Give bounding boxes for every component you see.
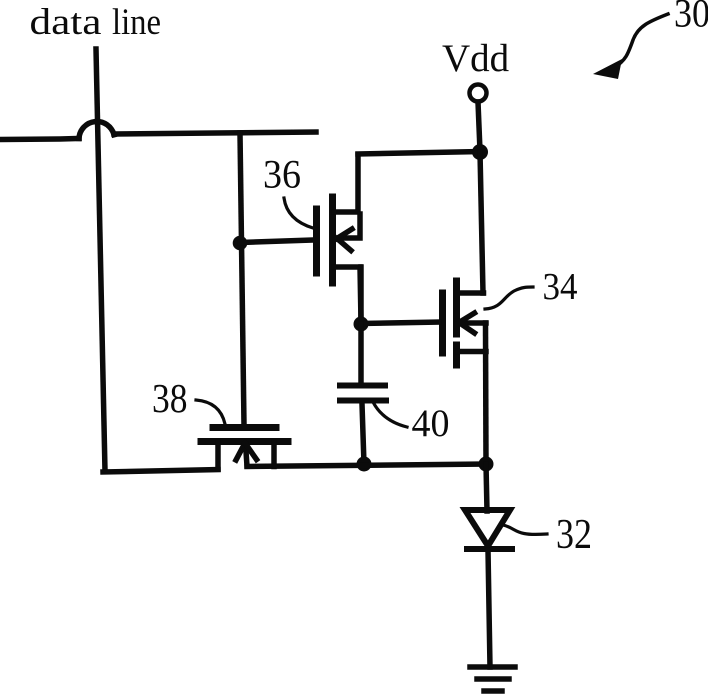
wire Vdd to node C: [478, 102, 480, 151]
svg-text:Vdd: Vdd: [442, 37, 510, 80]
diode 32 cathode bar: [467, 546, 512, 552]
wire node A to transistor 36 gate: [240, 240, 314, 243]
wire crossover hump over data line: [79, 122, 114, 139]
wire transistor 34 source riser down to node E: [483, 323, 489, 464]
wire node C down to transistor 34 drain: [480, 152, 483, 293]
ground top bar: [470, 664, 515, 670]
svg-text:40: 40: [412, 402, 450, 445]
wire bottom rail from transistor 38 to node E: [247, 464, 486, 467]
transistor 36 substrate arrow: [337, 214, 360, 251]
transistor 38 channel middle segment: [231, 438, 258, 445]
arrowhead of 30 leader: [593, 59, 622, 79]
transistor 34 source lead: [458, 349, 486, 355]
transistor 36 source lead: [334, 267, 361, 322]
svg-text:32: 32: [556, 512, 592, 558]
leader from 36 to transistor 36: [284, 198, 313, 228]
svg-text:30: 30: [674, 0, 708, 36]
svg-text:34: 34: [543, 266, 578, 308]
transistor 34 channel bottom segment: [453, 345, 460, 365]
transistor 36 gate bar: [313, 209, 320, 273]
wire top rail from transistor 36 drain to node C: [358, 152, 479, 155]
svg-text:36: 36: [263, 152, 301, 197]
transistor 38 source stub left: [215, 442, 221, 469]
ground bottom bar: [484, 688, 502, 694]
transistor 38 substrate arrow: [236, 443, 257, 466]
node E junction dot: [479, 457, 494, 472]
transistor 38 drain stub right: [271, 442, 277, 467]
transistor 36 channel bottom segment: [329, 259, 336, 283]
leader from 38 to transistor 38: [196, 400, 225, 424]
node C junction dot: [472, 144, 488, 160]
wire select row horizontal right of hump: [114, 132, 316, 134]
svg-text:dataline: dataline: [30, 2, 162, 43]
node D junction dot: [357, 457, 372, 472]
wire vertical from select row down to transistor 38 gate: [240, 133, 244, 425]
wire node E down to diode 32 anode: [486, 464, 487, 511]
transistor 34 gate bar: [439, 293, 446, 353]
transistor 36 channel middle segment: [329, 227, 336, 253]
transistor 34 channel middle segment: [453, 310, 460, 334]
wire capacitor 40 down to node D: [362, 404, 364, 464]
wire transistor 36 source down to node B: [358, 267, 364, 324]
diode 32 triangle: [465, 510, 510, 546]
terminal Vdd open circle: [470, 85, 487, 102]
wire select row horizontal left of hump: [0, 139, 79, 140]
svg-text:38: 38: [152, 375, 188, 421]
node B junction dot: [354, 317, 369, 332]
transistor 38 channel left segment: [201, 438, 226, 445]
leader arrow from 30: [614, 14, 668, 68]
transistor 36 drain lead: [334, 155, 358, 212]
wire node B to transistor 34 gate: [361, 322, 439, 324]
transistor 34 substrate arrow: [459, 313, 486, 333]
transistor 38 channel right segment: [264, 438, 288, 445]
node A junction dot: [233, 236, 248, 251]
leader from transistor 34 to 34: [485, 287, 533, 309]
leader from capacitor 40 to 40: [373, 402, 407, 427]
capacitor 40 top plate: [340, 383, 385, 389]
wire data line vertical: [96, 49, 105, 471]
transistor 34 channel top segment: [453, 281, 460, 304]
wire diode 32 to ground: [488, 550, 490, 667]
wire node B down to capacitor 40: [358, 324, 364, 383]
wire data line bottom bend to transistor 38 source: [103, 470, 218, 473]
leader from diode 32 to 32: [503, 525, 547, 535]
ground middle bar: [477, 676, 509, 682]
transistor 38 gate bar: [213, 424, 276, 431]
transistor 36 channel top segment: [329, 197, 336, 221]
capacitor 40 bottom plate: [340, 398, 386, 404]
transistor 34 drain lead: [457, 290, 484, 296]
